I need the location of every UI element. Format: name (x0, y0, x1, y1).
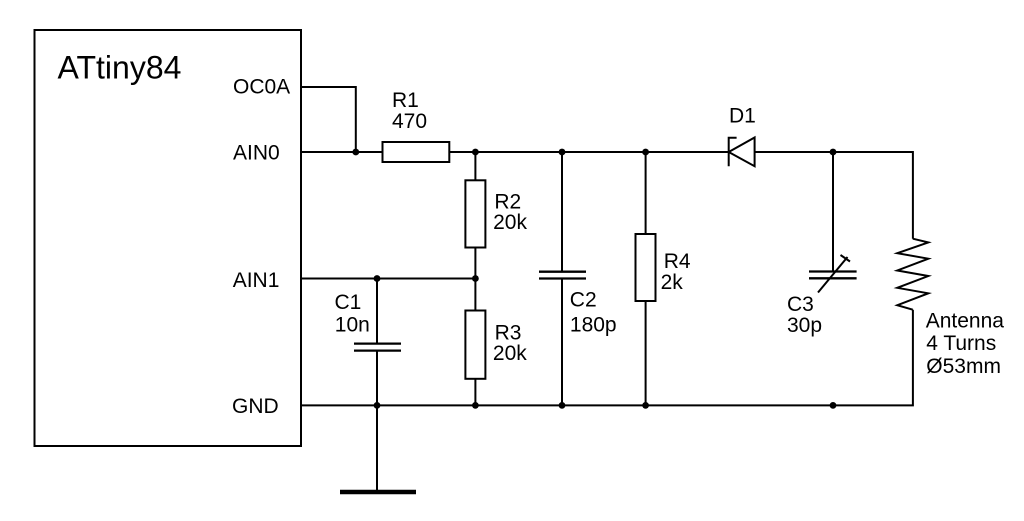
junction node OC0A/AIN0 (352, 149, 359, 156)
svg-text:R3: R3 (495, 321, 522, 344)
junction node GND/C1 (374, 402, 381, 409)
svg-text:R2: R2 (494, 190, 521, 213)
resistor R4 body (636, 234, 656, 301)
wire C2 top (561, 152, 563, 271)
svg-text:Antenna: Antenna (926, 309, 1005, 332)
capacitor C3 top plate (809, 270, 857, 272)
wire R2 top (474, 152, 476, 180)
svg-text:C3: C3 (787, 293, 814, 316)
wire R4 bottom to GND net (645, 301, 647, 405)
svg-text:20k: 20k (493, 211, 527, 234)
variable capacitor C3 arrow tick (841, 255, 851, 262)
svg-text:10n: 10n (335, 314, 370, 337)
wire C1 bottom to GND net (376, 351, 378, 405)
ground symbol (340, 490, 416, 495)
wire ground stub below GND net (376, 405, 378, 490)
capacitor C3 bottom plate (809, 277, 857, 279)
capacitor C2 top plate (539, 271, 586, 273)
resistor R1 body (383, 142, 450, 162)
svg-text:GND: GND (232, 395, 279, 418)
wire R3 bottom to GND net (474, 379, 476, 406)
svg-text:30p: 30p (787, 314, 822, 337)
inductor antenna coil (897, 239, 928, 310)
wire R1 to diode D1 (top net) (449, 151, 728, 153)
wire C1 top (376, 279, 378, 344)
junction node AIN1/C1 (374, 275, 381, 282)
capacitor C2 bottom plate (539, 277, 586, 279)
junction node GND/C2 (559, 402, 566, 409)
svg-text:470: 470 (392, 110, 427, 133)
capacitor C1 top plate (354, 342, 401, 344)
wire C3 top (832, 152, 834, 271)
svg-text:2k: 2k (661, 271, 684, 294)
svg-text:AIN1: AIN1 (233, 269, 280, 292)
capacitor C1 bottom plate (354, 349, 401, 351)
junction node R4 top (642, 149, 649, 156)
wire C2 bottom to GND net (561, 279, 563, 405)
svg-text:ATtiny84: ATtiny84 (58, 50, 182, 86)
wire AIN1 pin horizontal (301, 278, 475, 280)
svg-text:R4: R4 (664, 250, 691, 273)
variable capacitor C3 arrow (818, 257, 848, 293)
wire R4 top (645, 152, 647, 234)
wire diode D1 to antenna coil (corner) (755, 152, 913, 239)
svg-text:AIN0: AIN0 (233, 141, 280, 164)
junction node GND/R3 (472, 402, 479, 409)
svg-text:C1: C1 (335, 291, 362, 314)
diode D1 cathode bar (729, 138, 737, 167)
junction node R2/R3 divider (472, 275, 479, 282)
wire OC0A pin to AIN0 net (corner) (301, 87, 356, 152)
junction node C2 top (559, 149, 566, 156)
svg-text:C2: C2 (570, 289, 597, 312)
svg-text:Ø53mm: Ø53mm (926, 355, 1001, 378)
junction node GND/C3 (830, 402, 837, 409)
svg-text:OC0A: OC0A (233, 76, 290, 99)
svg-text:R1: R1 (392, 89, 419, 112)
svg-text:20k: 20k (493, 342, 527, 365)
resistor R2 body (465, 180, 485, 247)
resistor R3 body (465, 311, 485, 379)
svg-text:180p: 180p (570, 314, 617, 337)
junction node R1/R2 (472, 149, 479, 156)
diode D1 triangle (729, 138, 755, 167)
svg-text:4 Turns: 4 Turns (926, 332, 996, 355)
wire AIN0 pin to R1 (301, 151, 383, 153)
wire GND net horizontal and antenna return (corner) (301, 310, 913, 406)
IC U1 ATtiny84 body (35, 30, 302, 446)
junction node GND/R4 (642, 402, 649, 409)
svg-text:D1: D1 (729, 105, 756, 128)
junction node C3 top (830, 149, 837, 156)
wire R2 bottom to R3 top (474, 248, 476, 311)
